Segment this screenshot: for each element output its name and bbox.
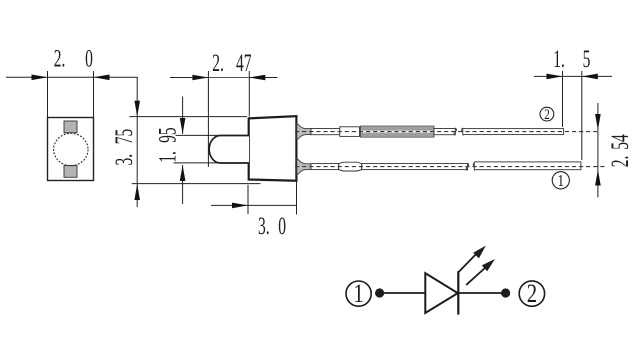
svg-text:1: 1 xyxy=(353,280,363,309)
schematic pin 2 circle xyxy=(519,281,544,306)
dimension 2.0 extension line right xyxy=(93,71,95,118)
top lead sleeve gray section xyxy=(361,126,435,137)
schematic wire right xyxy=(458,292,505,294)
top lead wire segment 1 xyxy=(311,129,340,135)
dimension 1.95 dim line top with arrow xyxy=(182,97,184,135)
dimension 2.47 extension line right xyxy=(248,71,250,117)
LED symbol anode triangle xyxy=(425,273,458,313)
dimension 2.47 extension line left xyxy=(207,71,209,167)
top lead dashed centerline xyxy=(295,131,597,133)
LED symbol cathode bar xyxy=(457,271,459,314)
top view package outline xyxy=(48,118,94,181)
funnel end cap top xyxy=(310,129,312,135)
dimension 3.75 extension line top xyxy=(129,116,247,118)
dimension 3.0 extension line left xyxy=(247,185,249,214)
top view LED die dashed circle xyxy=(54,133,88,165)
dimension 2.47 dim line right with arrow xyxy=(249,77,277,79)
LED light arrow 1 xyxy=(458,253,477,273)
bottom lead wire segment 2 xyxy=(362,164,468,170)
top lead wire segment 2 xyxy=(434,129,455,135)
dimension 2.0 extension line left xyxy=(47,71,49,118)
dimension 3.0 extension line right xyxy=(296,181,298,215)
lead funnel bottom xyxy=(297,158,311,175)
dimension 1.5 extension line left xyxy=(562,71,564,127)
schematic node dot right xyxy=(501,288,510,297)
dimension 1.5 dim line left with arrow xyxy=(534,75,582,77)
LED body side view xyxy=(249,116,297,181)
pin 2 callout circle xyxy=(540,107,554,121)
dimension 2.47 dim line left with arrow xyxy=(170,77,249,79)
bottom lead wire segment 1 xyxy=(311,164,339,170)
dimension 2.54 arrow bottom xyxy=(595,170,601,186)
svg-text:1: 1 xyxy=(557,172,564,191)
dimension 3.75 dim line with arrows xyxy=(136,77,138,207)
dimension 1.95 extension line top xyxy=(176,134,221,136)
top lead break curve xyxy=(454,128,456,136)
dimension 1.5 extension line right xyxy=(581,71,583,160)
schematic pin 1 circle xyxy=(346,281,371,306)
pin 1 callout circle xyxy=(552,172,569,189)
svg-text:2: 2 xyxy=(527,280,537,309)
dimension 2.0 dim line left with arrow xyxy=(6,76,94,78)
bottom lead crimp bulge xyxy=(339,162,362,171)
dimension 1.5 dim line right with arrow xyxy=(582,75,612,77)
top view lead pad lower xyxy=(64,166,77,178)
dimension 2.0 dim line right with arrow xyxy=(94,76,138,78)
LED epoxy dome xyxy=(209,136,249,164)
dimension 1.95 dim line bottom with arrow xyxy=(182,165,184,204)
top lead crimp section xyxy=(340,127,360,137)
dimension 3.0 dim line with single arrow xyxy=(211,204,297,206)
bottom lead wire segment 3 xyxy=(474,162,581,170)
bottom lead break curve xyxy=(466,163,468,171)
dimension 2.54 arrow top xyxy=(595,114,601,130)
top lead wire segment 3 xyxy=(463,129,564,135)
lead funnel top xyxy=(297,123,311,140)
schematic wire left xyxy=(380,292,425,294)
LED light arrow 2 xyxy=(466,268,485,285)
funnel end cap bottom xyxy=(310,164,312,170)
dimension 3.75 extension line bottom xyxy=(132,183,261,185)
dimension 2.54 dim line xyxy=(597,103,599,198)
svg-text:2: 2 xyxy=(544,106,550,123)
dimension 1.95 extension line bottom xyxy=(174,162,221,164)
schematic node dot left xyxy=(375,288,384,297)
top view lead pad upper xyxy=(64,121,77,133)
bottom lead dashed centerline xyxy=(295,166,606,168)
